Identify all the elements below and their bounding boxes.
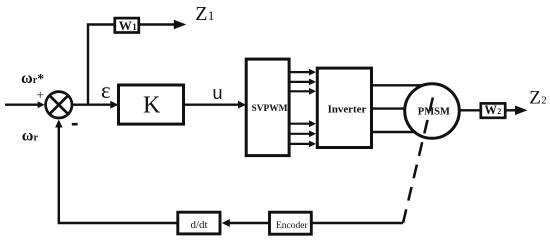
svg-text:SVPWM: SVPWM — [252, 104, 288, 114]
block d/dt — [178, 212, 220, 234]
wire: feedback bottom line from d/dt to summing junction — [59, 127, 177, 224]
wire: PMSM to W2 — [458, 109, 480, 111]
svg-text:+: + — [36, 88, 44, 103]
motor PMSM — [405, 84, 460, 139]
svg-text:K: K — [143, 92, 161, 118]
wire: Encoder to dashed sensing line — [313, 222, 404, 224]
block Inverter — [317, 68, 371, 147]
block W2 — [481, 103, 505, 117]
block K (controller) — [119, 85, 184, 124]
svg-text:PMSM: PMSM — [418, 106, 450, 117]
block SVPWM — [246, 59, 289, 156]
wires: Inverter to PMSM three-phase lines — [372, 85, 432, 132]
label - (minus at summing junction) — [72, 123, 78, 126]
wire: reference input line — [5, 103, 39, 105]
wire: Encoder to d/dt arrow — [229, 222, 269, 224]
wire: branch up to W1 — [88, 25, 114, 105]
svg-text:Encoder: Encoder — [276, 221, 308, 231]
summing junction — [46, 92, 72, 118]
wires: SVPWM to Inverter gate signals (6 arrows) — [290, 72, 311, 144]
wire: summing junction to K — [72, 103, 112, 105]
block Encoder — [270, 212, 312, 234]
wire: W1 output arrow — [140, 23, 175, 25]
svg-text:d/dt: d/dt — [191, 219, 208, 231]
wire: dashed mechanical coupling from PMSM to encoder line — [403, 95, 433, 223]
svg-text:ε: ε — [101, 78, 111, 103]
wire: K to SVPWM — [185, 103, 239, 105]
wire: W2 output arrow — [506, 109, 517, 111]
block W1 — [115, 18, 139, 32]
svg-text:Inverter: Inverter — [328, 104, 367, 116]
svg-text:u: u — [213, 83, 223, 103]
svg-text:ωr*: ωr* — [21, 70, 44, 87]
